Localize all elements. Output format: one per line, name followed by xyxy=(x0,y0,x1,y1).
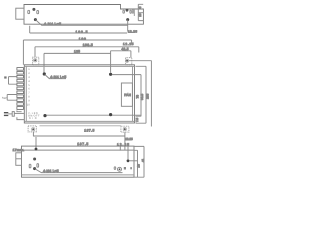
chassis body outline xyxy=(24,65,134,123)
svg-text:SW: SW xyxy=(2,96,7,100)
svg-text:16: 16 xyxy=(137,164,141,168)
hole dot V3-1 xyxy=(35,148,38,151)
left tab mid line xyxy=(16,158,22,160)
svg-text:70: 70 xyxy=(136,95,140,99)
tab hole dot TL xyxy=(34,59,36,61)
svg-text:41: 41 xyxy=(141,158,145,162)
BR tab extension down xyxy=(124,132,126,150)
svg-text:199: 199 xyxy=(79,37,86,41)
mounting hole dot right xyxy=(126,18,129,21)
extension from hole x36 down xyxy=(35,137,37,148)
FAN box xyxy=(121,83,132,106)
pin numbers xyxy=(27,68,30,106)
hole dot V3-2 xyxy=(33,167,36,170)
aux line to wall xyxy=(14,112,24,114)
bottom view body xyxy=(22,146,135,177)
side view body with stepped top xyxy=(24,5,143,25)
TR tab hole leader right xyxy=(129,60,152,62)
bottom dim line 1 xyxy=(40,125,121,127)
circled hole v3 xyxy=(118,167,122,171)
svg-text:4-M4 L=5: 4-M4 L=5 xyxy=(50,75,66,79)
BL tab hole dot xyxy=(32,128,34,130)
tab hole ring TR xyxy=(126,59,129,62)
extension from V3-3 up xyxy=(127,146,129,159)
svg-text:12.25: 12.25 xyxy=(128,30,137,34)
svg-text:FAN: FAN xyxy=(124,93,131,97)
leader from left hole xyxy=(35,20,127,26)
svg-text:187.5: 187.5 xyxy=(77,142,88,146)
leader right from V3-3 xyxy=(130,160,138,162)
right bracket seam extension xyxy=(134,150,138,177)
svg-text:16: 16 xyxy=(138,13,142,17)
svg-text:135: 135 xyxy=(74,50,80,54)
right group: slot 1 xyxy=(123,10,125,13)
bottom dim line 2 xyxy=(33,135,125,137)
svg-text:198.5: 198.5 xyxy=(76,30,88,34)
hole C extension right xyxy=(47,114,142,116)
slot window left xyxy=(28,10,30,13)
bottom-left dashed tab xyxy=(28,126,36,132)
svg-text:7.5: 7.5 xyxy=(135,117,139,122)
hook for 12.25 dim v3 xyxy=(119,146,121,150)
mounting hole dot left xyxy=(34,18,37,21)
lower-left step xyxy=(17,111,22,112)
dimension line 198.5 (view2) xyxy=(35,47,139,53)
BL tab hole ring xyxy=(32,128,35,131)
hole B extension right xyxy=(112,74,141,76)
mounting hole dot C (43.9,115.5) xyxy=(43,114,46,117)
left connector tab xyxy=(16,8,24,19)
terminal pins 1-11 xyxy=(17,68,24,110)
top-right mounting tab (dashed) xyxy=(126,58,132,65)
mounting hole dot D (110.5,114.1) xyxy=(109,113,112,116)
bottom-right dashed tab xyxy=(121,126,129,132)
step line to wall xyxy=(17,117,24,119)
hole B extension up xyxy=(110,51,112,73)
right group: slot 2 xyxy=(130,10,131,13)
hole dot V3-3 xyxy=(127,159,130,162)
bracket A mark xyxy=(4,76,6,78)
svg-text:187.5: 187.5 xyxy=(84,129,94,133)
screw head dot xyxy=(32,8,35,11)
tab hole ring TL xyxy=(34,59,37,62)
BL tab extension down xyxy=(32,132,34,136)
svg-text:4-M4 L=5: 4-M4 L=5 xyxy=(44,22,61,26)
extension from TL tab hole up xyxy=(34,47,36,57)
mounting hole dot A (45,72.6) xyxy=(43,72,46,75)
bottom view inner bottom line xyxy=(22,174,135,176)
dimension line 199 (view1) xyxy=(23,40,131,65)
right group: slot 3 xyxy=(132,10,133,13)
svg-text:98.5: 98.5 xyxy=(140,94,144,100)
circled hole dot v3 xyxy=(119,168,121,170)
aux connector link xyxy=(8,113,12,115)
extension above right corner xyxy=(138,4,143,20)
inner divider line view1 xyxy=(133,9,135,16)
right dim chain line 98.5 xyxy=(136,66,147,123)
BR tab hole dot xyxy=(124,128,126,130)
right group: filled dot xyxy=(126,9,129,12)
dimension line 135 / 42.5 xyxy=(44,53,111,72)
svg-text:DIR: DIR xyxy=(29,117,37,120)
leader for hole V3-2 xyxy=(35,169,123,173)
slot window right v3 xyxy=(37,164,39,168)
dim line 42.5 xyxy=(111,51,131,58)
mounting hole dot B (110.6,74.5) xyxy=(109,73,112,76)
small mark at right edge v3 xyxy=(130,167,132,169)
leader vertical right hole xyxy=(127,20,129,32)
svg-text:198.5: 198.5 xyxy=(83,43,93,47)
svg-text:12.25: 12.25 xyxy=(123,42,134,46)
slot window left v3 xyxy=(29,164,31,168)
chassis inner wall lines xyxy=(24,66,134,121)
screw head dot v3 xyxy=(33,158,36,161)
right bracket 41 xyxy=(134,146,144,177)
bracket group B xyxy=(7,95,17,101)
leader for hole A xyxy=(45,75,66,79)
svg-text:17max.: 17max. xyxy=(13,148,25,152)
bracket group A xyxy=(9,77,17,85)
tab hole dot TR xyxy=(126,60,128,62)
small mark right of circled hole xyxy=(124,167,126,170)
svg-text:12.25: 12.25 xyxy=(125,137,133,141)
right dim chain line 105 xyxy=(150,61,152,127)
BR tab hole ring xyxy=(123,127,126,130)
right dim chain line 70 xyxy=(136,75,142,117)
aux connector bars xyxy=(4,112,8,113)
text block 2-LED xyxy=(28,112,40,120)
bottom view left tab xyxy=(16,153,22,166)
slot window right xyxy=(37,11,39,14)
top-left mounting tab (dashed) xyxy=(33,57,39,65)
svg-text:105: 105 xyxy=(146,93,150,99)
dimension line 198.5 (view1) xyxy=(30,26,127,33)
svg-text:4-M4 L=5: 4-M4 L=5 xyxy=(43,169,59,173)
bottom view seam line xyxy=(22,149,135,151)
svg-text:42.5: 42.5 xyxy=(122,47,129,51)
aux connector small rect xyxy=(12,112,14,117)
small slot left of circled hole xyxy=(114,167,116,170)
